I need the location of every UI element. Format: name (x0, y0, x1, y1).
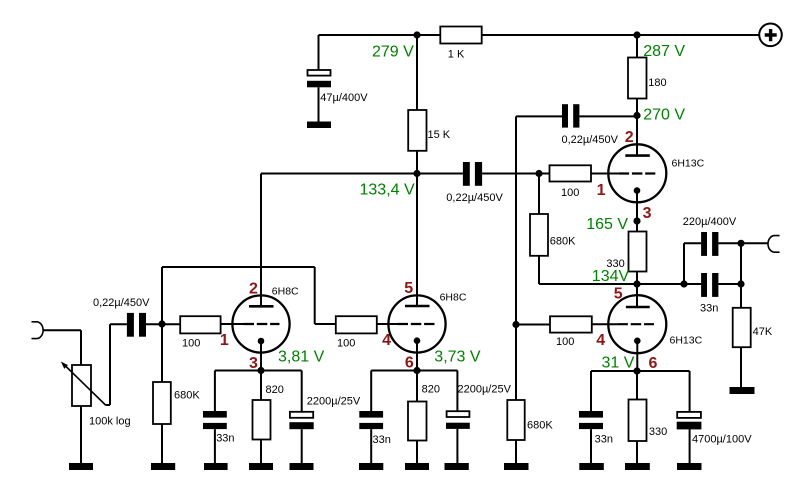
resistor 680K mid (530, 214, 548, 256)
resistor 47K (733, 308, 751, 347)
wire 180 to tube plate (636, 99, 638, 156)
tube U4 6H13C bottom (608, 295, 666, 353)
tube U3 6H13C top (608, 144, 666, 202)
svg-text:100: 100 (556, 336, 574, 348)
ground under 680K input (151, 463, 175, 470)
wire 680K2 branch (515, 325, 517, 464)
junction dot anode node (413, 170, 420, 177)
svg-text:1: 1 (220, 332, 229, 349)
ground under 330 bottom (625, 463, 650, 470)
capacitor 33n output (701, 273, 718, 297)
svg-text:31 V: 31 V (602, 355, 635, 372)
ground under 33n tube2 (359, 463, 383, 470)
tube U2 6H8C (388, 295, 445, 352)
svg-text:3,81 V: 3,81 V (278, 349, 325, 366)
svg-text:279 V: 279 V (372, 43, 414, 60)
resistor 1 K (440, 27, 481, 44)
svg-text:3: 3 (249, 355, 258, 372)
ground under 2200µ tube1 (290, 463, 314, 470)
svg-text:0,22µ/450V: 0,22µ/450V (446, 192, 503, 204)
svg-text:6: 6 (405, 355, 414, 372)
wire grid wire bottom 6H13C (592, 323, 618, 325)
connector output jack (768, 236, 780, 253)
svg-text:33n: 33n (595, 434, 613, 446)
wire pot bottom to ground (80, 406, 82, 463)
svg-text:270 V: 270 V (643, 106, 685, 123)
tube U1 6H8C (232, 295, 289, 352)
capacitor 0,22µ/450V input (127, 313, 146, 337)
svg-text:2: 2 (625, 129, 634, 146)
svg-text:680K: 680K (527, 420, 553, 432)
svg-text:100: 100 (337, 338, 355, 350)
wire coupling row (417, 173, 550, 175)
svg-text:2: 2 (249, 280, 258, 297)
junction dot top of 180 (633, 31, 640, 38)
ground under 33n tube1 (204, 463, 228, 470)
wire to plus terminal (636, 35, 638, 58)
resistor 100 grid tube1 (180, 316, 220, 333)
capacitor 33n tube2 (359, 411, 383, 429)
capacitor 0,22µ/450V top (562, 104, 579, 127)
wire bottom cathode (636, 341, 638, 371)
wire 680K1 branch (161, 324, 163, 463)
svg-text:47µ/400V: 47µ/400V (320, 92, 368, 104)
svg-text:6H13C: 6H13C (670, 334, 703, 346)
junction dot at 1K/15K (413, 31, 420, 38)
wire pot wiper (106, 324, 127, 405)
svg-text:3,73 V: 3,73 V (434, 349, 481, 366)
wire first stage anode link (261, 174, 417, 307)
junction dot 134V node (633, 280, 640, 287)
wire bottom cathode network (591, 371, 690, 463)
svg-text:330: 330 (649, 426, 667, 438)
wire grid tube2 (377, 323, 398, 325)
svg-text:2200µ/25V: 2200µ/25V (307, 396, 361, 408)
ground under 47u (307, 122, 331, 129)
svg-text:15 K: 15 K (428, 129, 451, 141)
junction dot bottom cathode (633, 367, 640, 374)
resistor 680K right (507, 400, 524, 440)
resistor 15 K (408, 110, 426, 151)
wire bottom tube plate riser (636, 284, 638, 307)
wire grid top 6H13C (591, 173, 619, 175)
junction dot 680K tap (535, 170, 542, 177)
svg-text:3: 3 (643, 205, 652, 222)
svg-text:5: 5 (404, 280, 413, 297)
svg-text:2200µ/25V: 2200µ/25V (458, 384, 512, 396)
resistor 100 grid tube2 (336, 316, 377, 333)
svg-text:134V: 134V (592, 268, 630, 285)
wire input to pot (43, 330, 81, 365)
resistor 100 grid bottom 6H13C (550, 316, 592, 332)
ground under pot (69, 463, 93, 470)
svg-text:100: 100 (561, 187, 579, 199)
wire cathode network tube1 (215, 371, 302, 464)
svg-text:6H13C: 6H13C (672, 158, 705, 170)
svg-text:680K: 680K (550, 236, 576, 248)
svg-text:47K: 47K (753, 326, 773, 338)
junction dot output bottom (737, 280, 744, 287)
ground under 33n bottom (579, 463, 604, 470)
junction dot grid divider bottom (512, 321, 519, 328)
terminal plus output (759, 24, 782, 47)
svg-text:6: 6 (649, 355, 658, 372)
wire cathode tube1 (260, 341, 262, 371)
resistor 180 (628, 58, 647, 99)
svg-text:680K: 680K (174, 390, 200, 402)
wire 15K column (416, 35, 418, 306)
svg-text:0,22µ/450V: 0,22µ/450V (562, 134, 619, 146)
capacitor 2200µ/25V tube1 (289, 412, 313, 429)
resistor 820 tube1 (253, 400, 271, 440)
resistor 680K input (153, 382, 171, 424)
junction dot output top (737, 240, 744, 247)
capacitor 0,22µ/450V mid (463, 162, 482, 186)
svg-text:6H8C: 6H8C (272, 285, 299, 297)
svg-text:287 V: 287 V (643, 43, 685, 60)
resistor 330 bottom (629, 400, 647, 442)
wire parallel grid link (162, 267, 336, 324)
svg-text:180: 180 (648, 77, 666, 89)
wire cathode tube2 (416, 341, 418, 371)
ground under 820 tube1 (249, 463, 273, 470)
svg-text:0,22µ/450V: 0,22µ/450V (93, 297, 150, 309)
junction dot 270V node (633, 112, 640, 119)
potentiometer 100k log (61, 362, 106, 407)
svg-text:165 V: 165 V (586, 216, 628, 233)
ground under 47K (730, 387, 755, 394)
wire bootstrap row to cap (516, 115, 637, 117)
junction dot cathode tube1 (257, 367, 264, 374)
svg-text:100: 100 (182, 338, 200, 350)
capacitor 220µ/400V (701, 232, 718, 256)
junction dot 165V node (633, 217, 640, 224)
capacitor 47µ/400V electrolytic (307, 70, 331, 87)
capacitor 4700µ/100V electrolytic (677, 412, 702, 430)
svg-text:5: 5 (614, 286, 623, 303)
capacitor 2200µ/25V tube2 (446, 411, 470, 429)
connector input jack (32, 322, 44, 339)
svg-text:133,4 V: 133,4 V (360, 182, 415, 199)
svg-text:220µ/400V: 220µ/400V (683, 216, 737, 228)
wire 47u drop (318, 35, 320, 122)
svg-text:33n: 33n (700, 302, 718, 314)
ground under 4700µ (677, 463, 702, 470)
svg-text:1 K: 1 K (448, 48, 465, 60)
svg-text:1: 1 (597, 182, 606, 199)
wire bootstrap column x516 (515, 116, 517, 324)
wire cap to grid junction (146, 323, 180, 325)
wire 680K3 branch (539, 174, 637, 285)
wire grid feed bottom 6H13C (516, 324, 550, 326)
wire top supply rail (319, 34, 760, 36)
capacitor 33n bottom cathode (579, 411, 603, 429)
svg-text:820: 820 (266, 384, 284, 396)
junction dot at 684,284 (680, 280, 687, 287)
svg-text:33n: 33n (373, 434, 391, 446)
svg-text:4: 4 (596, 332, 605, 349)
resistor 820 tube2 (408, 402, 427, 441)
junction dot input grid node (158, 320, 165, 327)
ground under 820 tube2 (405, 463, 429, 470)
junction dot cathode tube2 (413, 367, 420, 374)
svg-text:820: 820 (422, 384, 440, 396)
svg-text:33n: 33n (216, 433, 234, 445)
svg-text:6H8C: 6H8C (440, 291, 467, 303)
svg-text:4700µ/100V: 4700µ/100V (692, 434, 752, 446)
wire top tube cathode (636, 191, 638, 232)
capacitor 33n tube1 (203, 411, 227, 429)
wire output node row (637, 243, 768, 387)
resistor 100 grid top 6H13C (550, 165, 592, 181)
ground under 2200µ tube2 (445, 463, 469, 470)
svg-text:100k log: 100k log (89, 416, 131, 428)
wire grid tube1 (221, 323, 244, 325)
ground under 680K right (504, 463, 529, 470)
wire cathode network tube2 (371, 371, 457, 464)
resistor 330 top (629, 232, 647, 272)
wire 330 to 134V row (636, 272, 638, 285)
